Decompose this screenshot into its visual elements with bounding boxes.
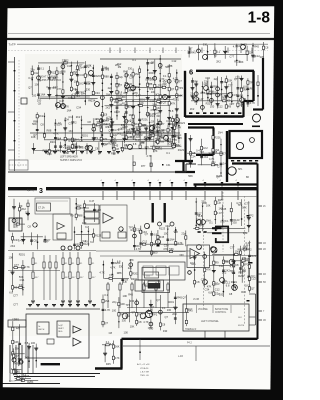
svg-text:6.8: 6.8	[120, 312, 124, 316]
svg-text:1K2: 1K2	[203, 146, 208, 150]
svg-text:C34: C34	[76, 106, 81, 110]
svg-text:C34: C34	[12, 317, 17, 321]
svg-text:REG: REG	[58, 331, 63, 333]
svg-text:6.8: 6.8	[200, 150, 204, 154]
svg-text:1xQP: 1xQP	[58, 325, 63, 327]
svg-text:4.7K: 4.7K	[105, 308, 111, 312]
svg-text:1B: 1B	[263, 320, 266, 322]
svg-text:6.8: 6.8	[85, 225, 89, 229]
svg-text:4: 4	[132, 180, 133, 182]
svg-text:C77: C77	[212, 283, 217, 287]
svg-text:C77: C77	[14, 263, 19, 267]
svg-text:4.7K: 4.7K	[53, 132, 59, 136]
svg-text:1N4: 1N4	[170, 238, 175, 242]
svg-text:0.1: 0.1	[209, 220, 213, 224]
svg-text:47K: 47K	[103, 137, 108, 141]
svg-text:6.8: 6.8	[25, 341, 29, 345]
svg-text:C7.1A: C7.1A	[38, 207, 45, 210]
svg-text:Q7: Q7	[28, 86, 32, 90]
svg-text:C34: C34	[166, 119, 171, 123]
svg-text:Q7: Q7	[171, 87, 175, 91]
svg-text:6.8: 6.8	[90, 240, 94, 244]
svg-text:C34: C34	[129, 76, 134, 80]
svg-text:22p: 22p	[181, 232, 186, 236]
svg-text:SUPPLY AMPL/VCO: SUPPLY AMPL/VCO	[60, 159, 82, 162]
svg-text:C12: C12	[172, 59, 177, 63]
svg-text:100: 100	[219, 292, 224, 296]
svg-text:1K2: 1K2	[243, 231, 248, 235]
svg-text:0.1: 0.1	[162, 306, 166, 310]
svg-text:Q7: Q7	[214, 53, 218, 57]
svg-text:0.47: 0.47	[56, 137, 62, 141]
svg-text:C34: C34	[171, 130, 176, 134]
svg-text:0.1: 0.1	[166, 151, 170, 155]
svg-text:2K2: 2K2	[106, 105, 111, 109]
svg-text:47K: 47K	[124, 119, 129, 123]
svg-text:Q7: Q7	[79, 63, 83, 67]
svg-text:R88: R88	[117, 271, 122, 275]
svg-text:Q7: Q7	[182, 295, 186, 299]
svg-text:C8: C8	[107, 122, 111, 126]
svg-text:22p: 22p	[16, 326, 21, 330]
svg-text:R9: R9	[215, 261, 219, 265]
svg-text:R123: R123	[96, 117, 103, 121]
svg-text:C77: C77	[148, 326, 153, 330]
svg-text:C8: C8	[53, 76, 57, 80]
svg-text:6.8: 6.8	[222, 95, 226, 99]
svg-text:1N4: 1N4	[40, 93, 45, 97]
svg-text:56K: 56K	[15, 347, 20, 351]
svg-text:C12: C12	[218, 105, 223, 109]
svg-text:SHIFT: SHIFT	[58, 328, 64, 330]
svg-text:R123: R123	[234, 60, 241, 64]
svg-text:330: 330	[130, 299, 135, 303]
svg-text:1K2: 1K2	[129, 113, 134, 117]
svg-text:Q7: Q7	[132, 310, 136, 314]
svg-text:22p: 22p	[30, 68, 35, 72]
svg-text:100: 100	[74, 79, 79, 83]
svg-text:0.1: 0.1	[163, 74, 167, 78]
svg-text:6.8: 6.8	[133, 142, 137, 146]
svg-text:C77: C77	[230, 246, 235, 250]
svg-text:0.1: 0.1	[158, 138, 162, 142]
svg-text:C12: C12	[142, 240, 147, 244]
svg-text:R88: R88	[111, 152, 116, 156]
svg-text:10K: 10K	[123, 294, 128, 298]
svg-text:100: 100	[37, 98, 42, 102]
svg-text:R45: R45	[106, 362, 111, 366]
svg-text:C77: C77	[138, 312, 143, 316]
svg-text:1N4: 1N4	[73, 70, 78, 74]
svg-text:C77: C77	[124, 73, 129, 77]
svg-text:P4.2: P4.2	[187, 343, 192, 345]
svg-text:330: 330	[203, 43, 208, 47]
svg-text:0.1: 0.1	[139, 230, 143, 234]
svg-text:C34: C34	[20, 278, 25, 282]
svg-text:R201: R201	[139, 98, 146, 102]
svg-text:47K: 47K	[123, 91, 128, 95]
svg-text:47K: 47K	[144, 145, 149, 149]
svg-text:1-8: 1-8	[248, 10, 271, 27]
svg-text:0.1: 0.1	[159, 66, 163, 70]
svg-text:6.8: 6.8	[9, 291, 13, 295]
svg-text:C8: C8	[196, 280, 200, 284]
svg-text:C12: C12	[68, 115, 73, 119]
svg-text:R45: R45	[221, 207, 226, 211]
svg-text:WFLT: WFLT	[187, 309, 194, 311]
svg-text:R88: R88	[148, 82, 153, 86]
svg-text:330: 330	[122, 318, 127, 322]
svg-text:Q7: Q7	[165, 315, 169, 319]
svg-text:C77: C77	[13, 293, 18, 297]
svg-text:4.7K: 4.7K	[250, 101, 256, 105]
svg-text:C77: C77	[217, 165, 222, 169]
svg-text:8R: 8R	[246, 177, 249, 179]
svg-text:C8: C8	[109, 331, 113, 335]
svg-text:4: 4	[203, 180, 204, 182]
svg-text:47K: 47K	[153, 149, 158, 153]
svg-text:100: 100	[167, 308, 172, 312]
svg-text:R201: R201	[19, 253, 26, 257]
svg-text:4.7K: 4.7K	[236, 201, 242, 205]
svg-text:C8: C8	[103, 142, 107, 146]
svg-text:1K2: 1K2	[117, 132, 122, 136]
svg-text:R201: R201	[212, 91, 219, 95]
svg-text:56K: 56K	[32, 122, 37, 126]
svg-text:Q7: Q7	[251, 286, 255, 290]
svg-text:C8: C8	[174, 79, 178, 83]
svg-text:100: 100	[32, 93, 37, 97]
svg-text:R88: R88	[43, 239, 48, 243]
svg-text:1N4: 1N4	[218, 131, 223, 135]
svg-text:TP2: TP2	[125, 303, 130, 307]
svg-text:4: 4	[236, 180, 237, 182]
svg-text:22p: 22p	[116, 109, 121, 113]
svg-text:TP2: TP2	[160, 129, 165, 133]
svg-text:C12: C12	[235, 76, 240, 80]
svg-text:L-4R: L-4R	[178, 356, 183, 358]
svg-text:TP2: TP2	[158, 84, 163, 88]
svg-text:R9: R9	[141, 140, 145, 144]
svg-text:TP2: TP2	[78, 145, 83, 149]
svg-text:C77: C77	[13, 303, 18, 307]
svg-text:R88: R88	[64, 151, 69, 155]
svg-text:C8: C8	[40, 123, 44, 127]
svg-text:Q7: Q7	[145, 232, 149, 236]
svg-text:10K: 10K	[206, 203, 211, 207]
svg-text:6.8: 6.8	[243, 85, 247, 89]
svg-text:C34: C34	[111, 137, 116, 141]
svg-text:2K2: 2K2	[216, 59, 221, 63]
svg-text:C34: C34	[191, 155, 196, 159]
svg-text:330: 330	[128, 67, 133, 71]
svg-text:Q7: Q7	[174, 229, 178, 233]
svg-text:0.1: 0.1	[46, 85, 50, 89]
svg-text:1N4: 1N4	[150, 114, 155, 118]
svg-text:R201: R201	[215, 135, 222, 139]
svg-text:1N4: 1N4	[135, 72, 140, 76]
svg-text:2K2: 2K2	[172, 312, 177, 316]
svg-text:100: 100	[164, 232, 169, 236]
svg-text:330: 330	[119, 265, 124, 269]
svg-text:R45: R45	[86, 82, 91, 86]
svg-text:TP2: TP2	[93, 136, 98, 140]
svg-text:1N4: 1N4	[130, 228, 135, 232]
svg-text:R9: R9	[215, 163, 219, 167]
svg-text:SLF: SLF	[238, 317, 243, 319]
svg-text:R9: R9	[142, 124, 146, 128]
svg-text:R123: R123	[179, 121, 186, 125]
svg-text:R9: R9	[70, 214, 74, 218]
svg-text:56K: 56K	[188, 174, 193, 178]
svg-text:0.1: 0.1	[240, 94, 244, 98]
svg-text:R9: R9	[19, 204, 23, 208]
svg-text:0.1: 0.1	[72, 138, 76, 142]
svg-text:TP2: TP2	[178, 86, 183, 90]
svg-text:47K: 47K	[171, 101, 176, 105]
svg-text:C12: C12	[65, 146, 70, 150]
svg-text:LTDA 26: LTDA 26	[140, 367, 149, 370]
svg-text:R88: R88	[201, 91, 206, 95]
svg-text:47K: 47K	[153, 108, 158, 112]
svg-text:0.47: 0.47	[217, 211, 223, 215]
svg-text:R123: R123	[95, 233, 102, 237]
svg-text:5R: 5R	[263, 282, 266, 284]
svg-text:100: 100	[112, 308, 117, 312]
svg-text:2K2: 2K2	[236, 44, 241, 48]
svg-text:330: 330	[201, 200, 206, 204]
svg-text:4.7K: 4.7K	[86, 64, 92, 68]
svg-text:47K: 47K	[129, 258, 134, 262]
svg-text:47K: 47K	[206, 268, 211, 272]
svg-text:TP2: TP2	[247, 247, 252, 251]
svg-text:R77: R77	[141, 165, 146, 168]
svg-text:100: 100	[242, 256, 247, 260]
svg-text:C8: C8	[229, 292, 233, 296]
svg-text:C8: C8	[28, 225, 32, 229]
svg-text:4: 4	[101, 180, 102, 182]
svg-text:4.7K: 4.7K	[110, 266, 116, 270]
svg-text:4.7K: 4.7K	[143, 320, 149, 324]
svg-text:4: 4	[148, 180, 149, 182]
svg-text:C8: C8	[33, 239, 37, 243]
svg-text:56K: 56K	[172, 142, 177, 146]
svg-text:0.1: 0.1	[58, 121, 62, 125]
svg-text:C8: C8	[95, 146, 99, 150]
svg-text:R123: R123	[151, 131, 158, 135]
svg-text:R88: R88	[250, 87, 255, 91]
svg-text:1N4: 1N4	[103, 122, 108, 126]
svg-text:L.B.T NH: L.B.T NH	[140, 372, 149, 374]
svg-text:2K2: 2K2	[115, 63, 120, 67]
svg-text:4.7K: 4.7K	[24, 265, 30, 269]
svg-text:22p: 22p	[128, 266, 133, 270]
svg-text:BASS/TONE: BASS/TONE	[215, 308, 229, 311]
svg-text:R45: R45	[241, 290, 246, 294]
svg-text:R45: R45	[218, 198, 223, 202]
svg-text:C8: C8	[116, 147, 120, 151]
svg-text:47K: 47K	[156, 126, 161, 130]
svg-text:TP2: TP2	[148, 87, 153, 91]
svg-text:R123: R123	[120, 146, 127, 150]
svg-text:C34: C34	[205, 76, 210, 80]
svg-text:R201: R201	[149, 71, 156, 75]
svg-text:1N4: 1N4	[86, 144, 91, 148]
svg-text:2K2: 2K2	[39, 114, 44, 118]
svg-text:R201: R201	[231, 280, 238, 284]
svg-text:LEFT CHANNEL: LEFT CHANNEL	[201, 320, 220, 323]
svg-text:100: 100	[239, 103, 244, 107]
svg-text:4.7K: 4.7K	[99, 270, 105, 274]
svg-text:0.47: 0.47	[18, 239, 24, 243]
svg-text:4: 4	[220, 180, 221, 182]
svg-text:4.7K: 4.7K	[172, 138, 178, 142]
svg-text:1N4: 1N4	[67, 109, 72, 113]
svg-text:1K2: 1K2	[225, 99, 230, 103]
svg-text:330: 330	[19, 283, 24, 287]
svg-text:1K2: 1K2	[222, 271, 227, 275]
svg-text:Q7: Q7	[163, 100, 167, 104]
svg-text:C34: C34	[205, 288, 210, 292]
svg-text:C8: C8	[252, 54, 256, 58]
svg-text:100: 100	[35, 82, 40, 86]
svg-text:10K: 10K	[82, 221, 87, 225]
svg-text:R9: R9	[106, 67, 110, 71]
svg-text:0.47: 0.47	[134, 129, 140, 133]
svg-text:TP2: TP2	[249, 80, 254, 84]
svg-text:0.47: 0.47	[223, 162, 229, 166]
svg-text:3: 3	[39, 188, 43, 195]
svg-text:R88: R88	[78, 214, 83, 218]
svg-text:R9: R9	[75, 88, 79, 92]
svg-text:L5.0B: L5.0B	[193, 299, 199, 301]
svg-text:6.8: 6.8	[226, 284, 230, 288]
svg-text:SP1: SP1	[238, 169, 243, 171]
svg-text:C77: C77	[229, 54, 234, 58]
svg-text:Q7: Q7	[130, 118, 134, 122]
svg-text:1K2: 1K2	[190, 107, 195, 111]
svg-text:R123: R123	[178, 148, 185, 152]
svg-text:R88: R88	[61, 70, 66, 74]
svg-text:1N4: 1N4	[117, 102, 122, 106]
svg-text:6.8: 6.8	[110, 342, 114, 346]
svg-text:6.8: 6.8	[123, 280, 127, 284]
svg-text:0.1: 0.1	[216, 50, 220, 54]
svg-text:0.1: 0.1	[40, 67, 44, 71]
svg-text:1N4: 1N4	[77, 203, 82, 207]
svg-text:22p: 22p	[214, 77, 219, 81]
svg-text:47K: 47K	[178, 136, 183, 140]
svg-text:C8: C8	[80, 139, 84, 143]
svg-text:C12: C12	[219, 264, 224, 268]
svg-text:22p: 22p	[112, 300, 117, 304]
svg-text:R9: R9	[243, 97, 247, 101]
svg-text:PA/B: PA/B	[191, 263, 196, 266]
svg-text:A#2,+#2 x18: A#2,+#2 x18	[137, 363, 150, 366]
svg-text:R201: R201	[95, 74, 102, 78]
svg-text:56K: 56K	[47, 70, 52, 74]
svg-text:TMPr LB: TMPr LB	[140, 374, 149, 377]
svg-text:22p: 22p	[190, 92, 195, 96]
svg-text:1R: 1R	[263, 243, 266, 245]
svg-text:C77: C77	[228, 83, 233, 87]
svg-text:Q7: Q7	[105, 321, 109, 325]
svg-text:4.7K: 4.7K	[106, 115, 112, 119]
svg-text:47K: 47K	[224, 260, 229, 264]
svg-text:330: 330	[79, 242, 84, 246]
svg-text:R201: R201	[216, 174, 223, 178]
svg-text:0.1: 0.1	[246, 243, 250, 247]
svg-text:1K2: 1K2	[79, 82, 84, 86]
svg-text:6(2#4): 6(2#4)	[27, 190, 34, 192]
svg-text:Q7: Q7	[16, 220, 20, 224]
svg-text:R201: R201	[82, 133, 89, 137]
svg-text:10K: 10K	[9, 255, 14, 259]
svg-text:Q7: Q7	[197, 213, 201, 217]
svg-text:C12: C12	[215, 288, 220, 292]
svg-text:22p: 22p	[119, 75, 124, 79]
svg-text:R45: R45	[128, 293, 133, 297]
svg-text:C8: C8	[151, 119, 155, 123]
svg-text:4.7K: 4.7K	[230, 264, 236, 268]
svg-text:C8: C8	[265, 46, 269, 50]
svg-text:10K: 10K	[228, 78, 233, 82]
svg-text:100: 100	[124, 330, 129, 334]
svg-text:2K2: 2K2	[10, 244, 15, 248]
svg-text:47K: 47K	[163, 247, 168, 251]
svg-text:C12: C12	[67, 64, 72, 68]
svg-text:C77: C77	[245, 201, 250, 205]
svg-text:6(2) 4#: 6(2) 4#	[9, 381, 16, 383]
svg-text:4: 4	[115, 180, 116, 182]
svg-text:22p: 22p	[62, 59, 67, 63]
svg-text:C12: C12	[150, 99, 155, 103]
svg-text:2K2: 2K2	[157, 97, 162, 101]
svg-text:4R: 4R	[263, 274, 266, 276]
svg-text:100: 100	[31, 341, 36, 345]
svg-text:22p: 22p	[108, 86, 113, 90]
svg-text:R9: R9	[88, 99, 92, 103]
svg-text:4.7K: 4.7K	[136, 247, 142, 251]
svg-text:3x: 3x	[38, 326, 40, 328]
svg-text:C77: C77	[160, 122, 165, 126]
svg-text:330: 330	[232, 220, 237, 224]
svg-text:R88: R88	[168, 64, 173, 68]
svg-text:0.47: 0.47	[28, 76, 34, 80]
svg-text:C77: C77	[230, 102, 235, 106]
svg-text:R88: R88	[104, 75, 109, 79]
svg-text:C34: C34	[95, 91, 100, 95]
svg-text:2K2: 2K2	[76, 115, 81, 119]
svg-text:4: 4	[158, 180, 159, 182]
svg-text:C12: C12	[251, 277, 256, 281]
svg-text:6: 6	[189, 68, 193, 77]
svg-text:4.7K: 4.7K	[177, 241, 183, 245]
svg-text:C8: C8	[151, 61, 155, 65]
svg-text:4: 4	[170, 180, 171, 182]
svg-text:C8: C8	[235, 263, 239, 267]
svg-text:0.1: 0.1	[132, 58, 136, 62]
svg-text:C12: C12	[115, 82, 120, 86]
svg-text:2K2: 2K2	[204, 155, 209, 159]
svg-text:10K: 10K	[176, 144, 181, 148]
svg-text:TxTP: TxTP	[9, 43, 16, 47]
svg-text:MUTE: MUTE	[238, 325, 245, 327]
svg-text:R45: R45	[254, 45, 259, 49]
svg-text:1K2: 1K2	[96, 208, 101, 212]
svg-text:1K2: 1K2	[245, 283, 250, 287]
svg-text:6.8: 6.8	[118, 127, 122, 131]
